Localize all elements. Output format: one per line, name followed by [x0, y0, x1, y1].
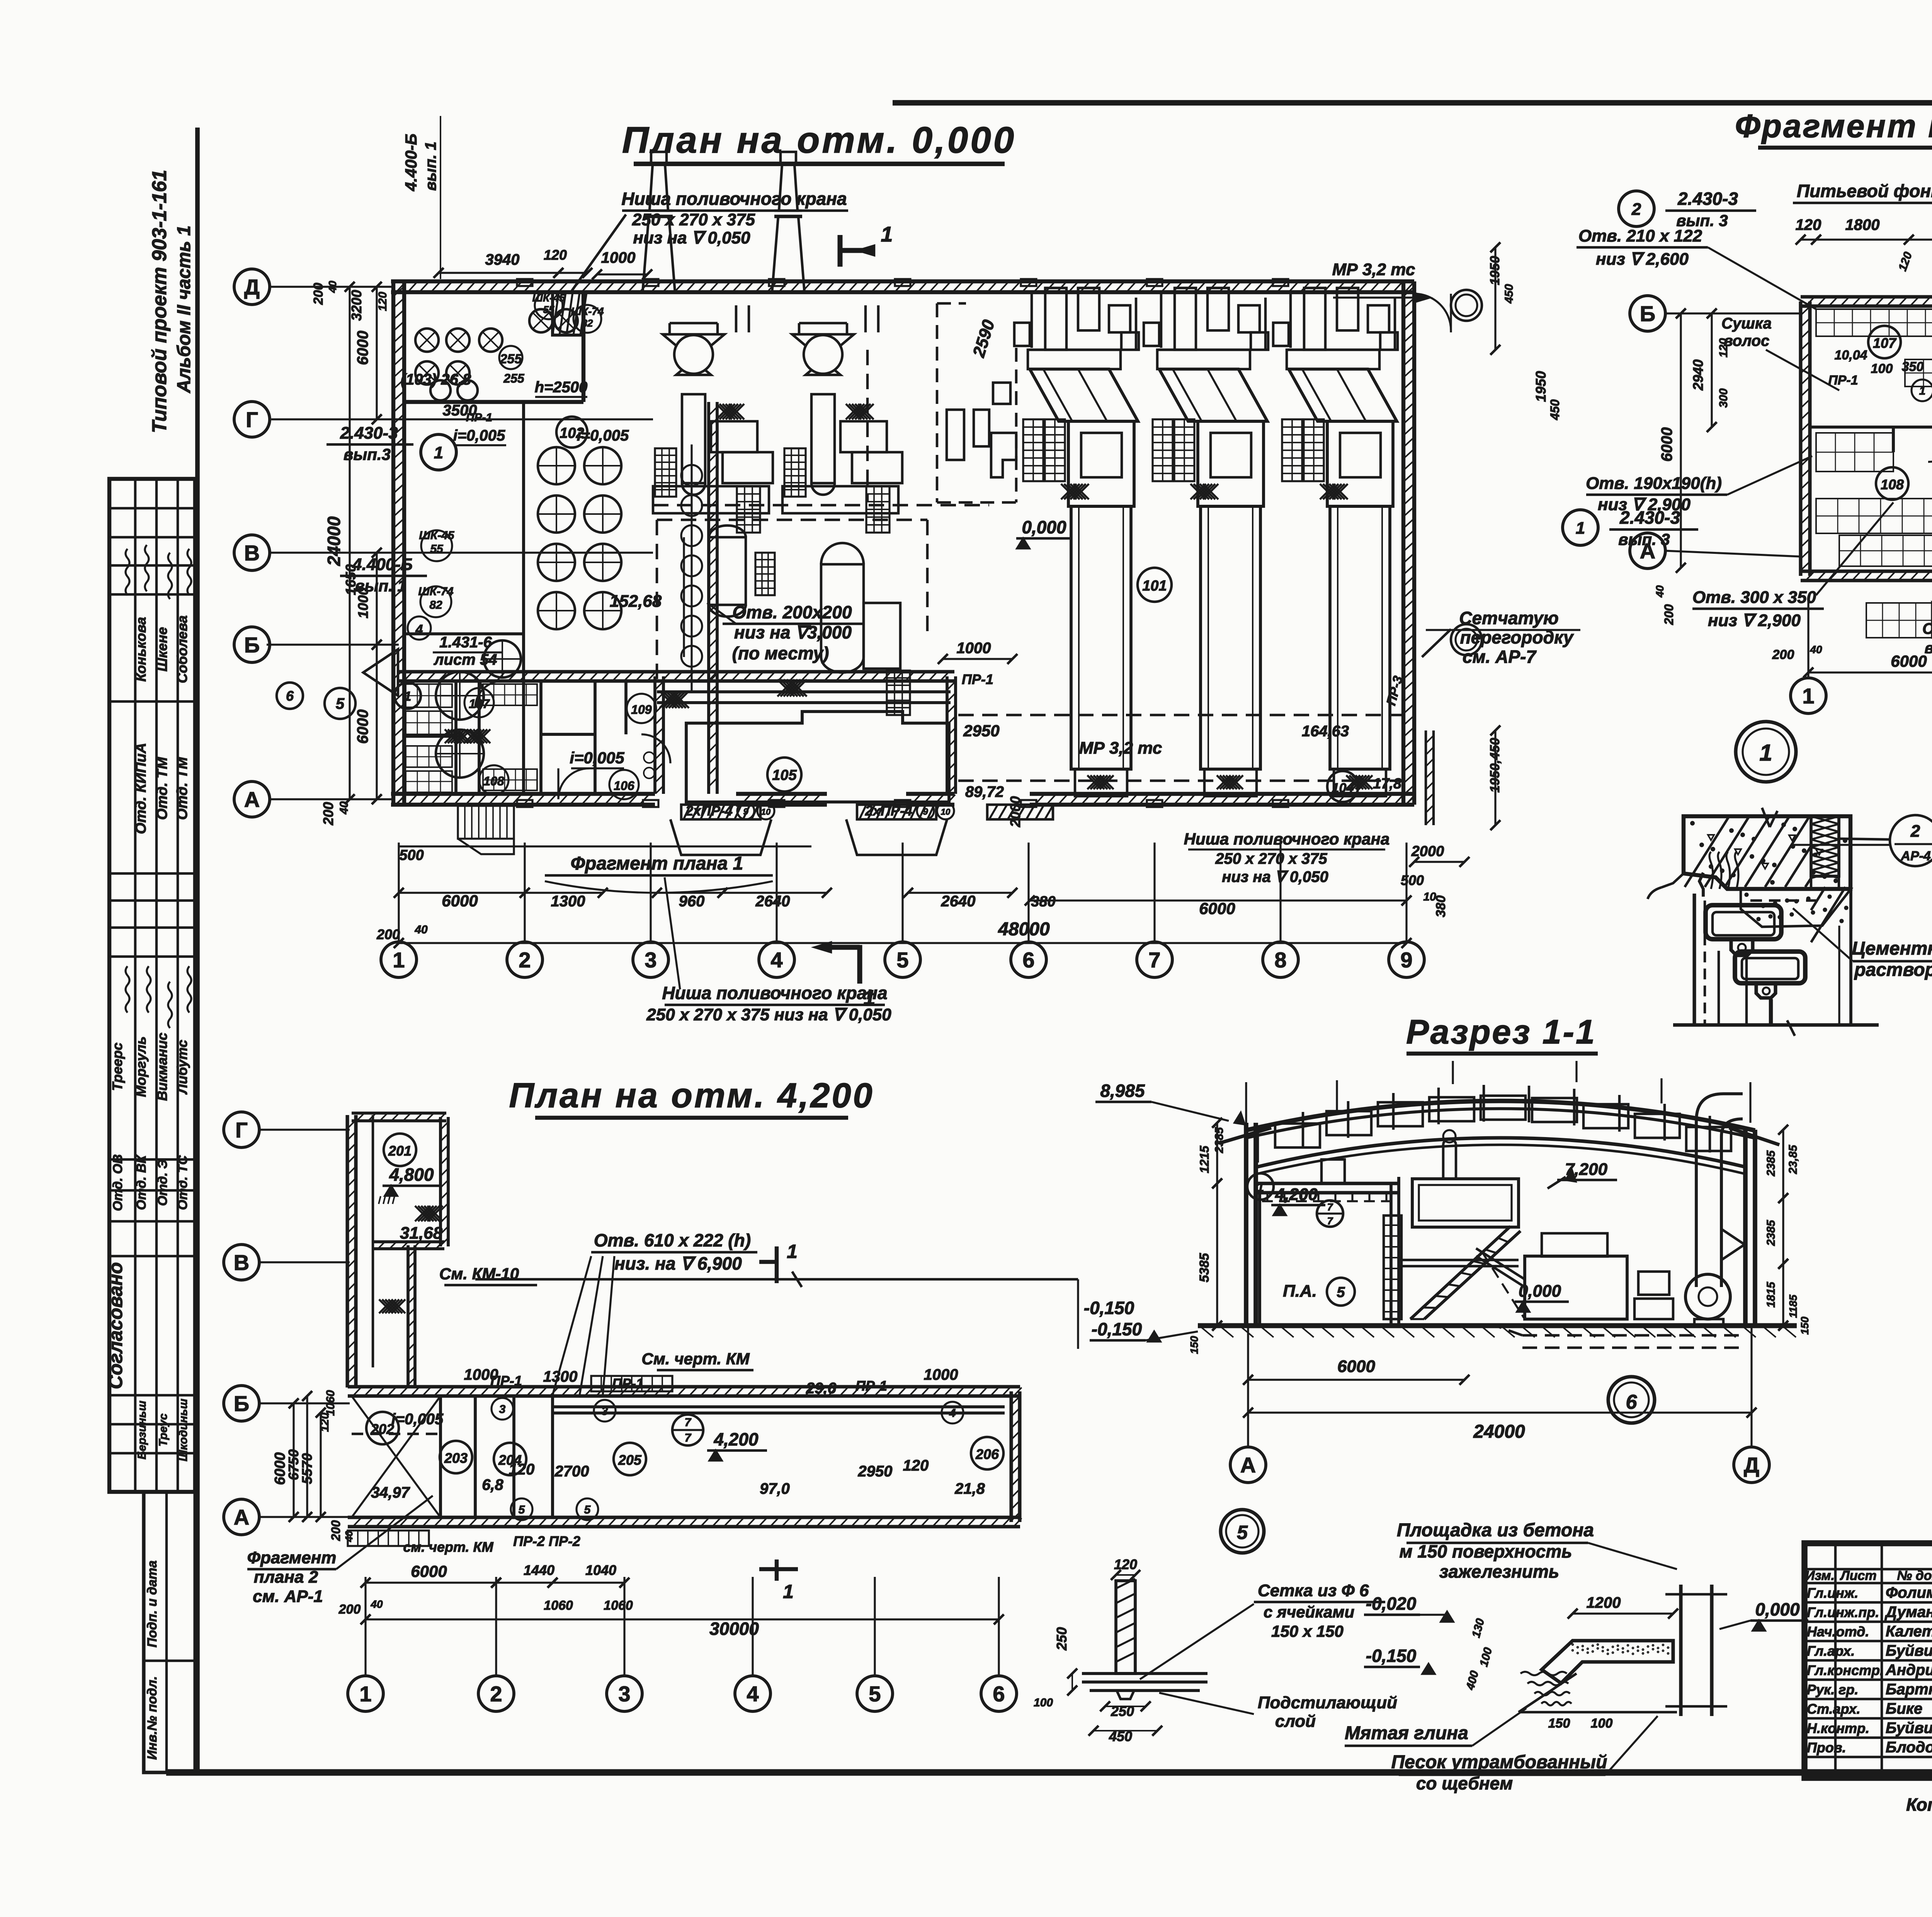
svg-text:лист 54: лист 54 [434, 651, 497, 668]
svg-text:6000: 6000 [354, 710, 371, 744]
svg-text:Блодоне: Блодоне [1886, 1739, 1932, 1756]
svg-text:МР 3,2 тс: МР 3,2 тс [1332, 260, 1415, 279]
svg-text:21,8: 21,8 [954, 1480, 985, 1497]
svg-text:(по месту): (по месту) [732, 643, 829, 663]
svg-text:5: 5 [1237, 1522, 1248, 1543]
svg-text:Сетка из Ф 6: Сетка из Ф 6 [1258, 1581, 1369, 1600]
svg-text:раствор: раствор [1854, 960, 1932, 980]
svg-text:6000: 6000 [442, 892, 478, 910]
svg-text:низ ∇ 2,600: низ ∇ 2,600 [1596, 250, 1689, 269]
svg-text:Б: Б [244, 633, 260, 657]
svg-text:8: 8 [1274, 948, 1286, 972]
svg-text:6,8: 6,8 [482, 1476, 503, 1493]
svg-text:А: А [244, 787, 260, 812]
svg-text:2хПР-4: 2хПР-4 [865, 803, 912, 819]
svg-text:1060: 1060 [604, 1598, 633, 1613]
svg-text:вып.3: вып.3 [344, 445, 391, 463]
svg-text:250 х 270 х 375 низ на ∇ 0,05: 250 х 270 х 375 низ на ∇ 0,050 [646, 1005, 891, 1024]
svg-text:см. черт. КМ: см. черт. КМ [403, 1539, 493, 1555]
main plan small labels [466, 291, 604, 424]
main plan boiler top pipes [1032, 294, 1395, 350]
svg-text:100: 100 [1034, 1696, 1053, 1709]
svg-text:10,04: 10,04 [1834, 348, 1867, 363]
svg-text:82: 82 [429, 599, 442, 611]
svg-text:89,72: 89,72 [965, 783, 1004, 800]
svg-text:2640: 2640 [755, 893, 790, 910]
main plan bottom niche label [646, 877, 891, 1024]
svg-text:Отд. ТС: Отд. ТС [175, 1155, 190, 1210]
svg-text:Отд. ОВ: Отд. ОВ [111, 1154, 125, 1211]
plan4200 axis circles [224, 1112, 1017, 1711]
svg-text:40: 40 [327, 281, 338, 293]
svg-text:Гл.инж.: Гл.инж. [1807, 1585, 1858, 1601]
border frame left [195, 128, 200, 1774]
svg-text:Д: Д [244, 275, 260, 299]
plan4200 room labels [366, 1411, 1003, 1475]
fragment plan door arcs [1928, 336, 1932, 576]
svg-text:-0,150: -0,150 [1084, 1298, 1134, 1318]
svg-text:55: 55 [430, 543, 444, 555]
svg-text:Гл.арх.: Гл.арх. [1807, 1643, 1855, 1659]
section exhauster duct [1685, 1094, 1745, 1326]
main plan entry ramps [458, 802, 1053, 855]
fragment plan position circles [1912, 295, 1932, 573]
svg-text:29,6: 29,6 [806, 1380, 837, 1397]
main plan right side details [1302, 294, 1469, 867]
section bottom dims [1243, 1357, 1757, 1442]
svg-text:1.431-6: 1.431-6 [439, 634, 492, 651]
below title block notes [1906, 1794, 1932, 1835]
fragment plan bottom labels [1772, 580, 1932, 714]
svg-text:105: 105 [772, 767, 797, 783]
svg-text:низ на ∇ 0,050: низ на ∇ 0,050 [1222, 868, 1328, 885]
svg-text:250: 250 [1054, 1627, 1070, 1651]
svg-text:ПР-1: ПР-1 [490, 1373, 522, 1389]
svg-text:Гл.констр.: Гл.констр. [1807, 1662, 1884, 1678]
svg-text:Согласовано: Согласовано [105, 1262, 126, 1389]
svg-text:Берзиньш: Берзиньш [136, 1401, 148, 1459]
plan4200 otv610 label [553, 1230, 757, 1395]
svg-text:№ докум.: № докум. [1897, 1568, 1932, 1583]
sidebar table frame [109, 479, 195, 1492]
main plan right outside labels [1451, 189, 1756, 830]
svg-text:В: В [234, 1250, 249, 1275]
svg-text:6000: 6000 [411, 1562, 447, 1580]
svg-text:5: 5 [896, 948, 908, 972]
main plan deaerator tanks [653, 305, 989, 715]
svg-text:109: 109 [631, 703, 652, 717]
svg-text:Сушка: Сушка [1922, 620, 1932, 637]
main plan top dims [402, 116, 652, 279]
border frame bottom [166, 1769, 1932, 1776]
plan4200 left dims [272, 1390, 355, 1542]
svg-text:6: 6 [1626, 1391, 1638, 1413]
svg-text:24000: 24000 [324, 516, 344, 566]
svg-text:2640: 2640 [941, 893, 976, 910]
svg-text:Андриевская: Андриевская [1885, 1662, 1932, 1679]
svg-text:5385: 5385 [1197, 1253, 1212, 1282]
main plan right niche label [1025, 830, 1424, 918]
svg-text:6: 6 [993, 1682, 1005, 1706]
fragment plan room circles [1736, 326, 1932, 782]
svg-text:5: 5 [519, 1503, 526, 1516]
svg-text:слой: слой [1275, 1712, 1316, 1731]
section economizer [1476, 1233, 1673, 1319]
svg-text:Либутс: Либутс [174, 1040, 190, 1095]
section ground [1198, 1326, 1797, 1337]
svg-text:1200: 1200 [1587, 1594, 1621, 1611]
svg-text:5: 5 [1337, 1284, 1345, 1301]
main plan grid circles [381, 843, 1424, 977]
svg-text:6: 6 [1022, 948, 1034, 972]
svg-text:150 х 150: 150 х 150 [1271, 1622, 1344, 1640]
svg-text:200: 200 [1772, 647, 1794, 662]
title plan 4.200 [509, 1076, 874, 1118]
svg-text:Альбом II часть 1: Альбом II часть 1 [174, 225, 194, 393]
main plan doors [475, 681, 670, 799]
svg-text:Ниша поливочного крана: Ниша поливочного крана [621, 189, 847, 209]
svg-text:40: 40 [1654, 585, 1666, 598]
svg-text:3: 3 [645, 948, 656, 972]
svg-text:План на отм. 4,200: План на отм. 4,200 [509, 1076, 874, 1115]
svg-text:-0,150: -0,150 [1366, 1646, 1417, 1666]
main plan room 103 tanks [401, 309, 578, 419]
svg-text:Подстилающий: Подстилающий [1258, 1693, 1397, 1712]
main plan rooms 106-109 [399, 672, 657, 799]
svg-text:40: 40 [338, 801, 350, 815]
svg-text:255: 255 [500, 352, 522, 366]
svg-text:вып. 1: вып. 1 [355, 577, 406, 595]
svg-text:500: 500 [399, 847, 423, 863]
main plan axis lines [267, 287, 653, 799]
wall detail 2AP-4 [1648, 808, 1932, 1036]
svg-text:7: 7 [1327, 1215, 1333, 1227]
svg-text:Ст.арх.: Ст.арх. [1807, 1701, 1861, 1717]
plan4200 bottom dims [338, 1562, 1004, 1639]
svg-text:200: 200 [338, 1602, 361, 1617]
svg-text:150: 150 [1188, 1336, 1200, 1354]
svg-text:См. черт. КМ: См. черт. КМ [641, 1350, 750, 1368]
svg-text:500: 500 [1401, 872, 1424, 888]
main plan KTP 105 [655, 672, 1023, 827]
svg-text:3940: 3940 [485, 251, 520, 268]
svg-text:Копировал Бролиша: Копировал Бролиша [1906, 1794, 1932, 1815]
detail 5 labels [1140, 1581, 1397, 1731]
svg-text:с ячейками: с ячейками [1264, 1603, 1354, 1621]
svg-text:120: 120 [903, 1457, 929, 1474]
svg-text:120: 120 [509, 1461, 535, 1478]
svg-text:Фрагмент плана 1: Фрагмент плана 1 [571, 853, 743, 874]
main plan bottom dims [376, 846, 1448, 948]
svg-text:7: 7 [1148, 948, 1160, 972]
svg-text:1: 1 [1257, 1180, 1264, 1195]
svg-text:1185: 1185 [1787, 1294, 1799, 1318]
plan4200 fragment2 label [247, 1496, 433, 1606]
svg-text:206: 206 [975, 1446, 999, 1462]
svg-text:4: 4 [770, 948, 782, 972]
border frame top [893, 100, 1932, 106]
svg-text:см. АР-1: см. АР-1 [253, 1587, 323, 1606]
svg-text:Барткевич: Барткевич [1886, 1681, 1932, 1698]
svg-text:h=2500: h=2500 [535, 379, 588, 396]
svg-text:4,200: 4,200 [713, 1429, 759, 1449]
section stairs [1384, 1216, 1520, 1319]
main plan axis letter circles [234, 269, 270, 817]
svg-text:Б: Б [1640, 301, 1655, 326]
svg-text:Отд. ВК: Отд. ВК [134, 1154, 149, 1210]
svg-text:2: 2 [490, 1682, 502, 1706]
svg-text:i=0,005: i=0,005 [391, 1411, 444, 1428]
svg-text:низ. на ∇ 6,900: низ. на ∇ 6,900 [614, 1253, 742, 1273]
plan4200 numbers [371, 1366, 985, 1520]
svg-text:вып. 1: вып. 1 [422, 141, 439, 191]
svg-text:1: 1 [434, 443, 443, 462]
svg-text:5: 5 [584, 1503, 591, 1516]
main plan room 102 filters [408, 417, 702, 778]
svg-text:2700: 2700 [554, 1463, 589, 1480]
svg-text:Ниша поливочного крана: Ниша поливочного крана [1184, 830, 1390, 848]
svg-text:9: 9 [1400, 948, 1412, 972]
svg-text:Ниша поливочного крана: Ниша поливочного крана [662, 983, 887, 1003]
svg-text:А: А [1240, 1453, 1256, 1477]
svg-text:4: 4 [949, 1407, 956, 1420]
svg-text:150: 150 [1799, 1316, 1811, 1335]
svg-text:Отд. КИПиА: Отд. КИПиА [133, 743, 149, 834]
svg-text:107: 107 [469, 697, 490, 711]
svg-text:Калетов: Калетов [1886, 1623, 1932, 1640]
svg-text:плана 2: плана 2 [254, 1568, 318, 1587]
svg-text:6000: 6000 [1891, 652, 1927, 670]
svg-text:i=0,005: i=0,005 [577, 427, 629, 444]
svg-text:2: 2 [519, 948, 531, 972]
svg-text:1: 1 [1576, 519, 1585, 538]
svg-text:97,0: 97,0 [760, 1480, 790, 1497]
svg-text:2: 2 [1910, 822, 1920, 841]
svg-text:104: 104 [1332, 781, 1354, 795]
svg-text:202: 202 [371, 1421, 394, 1437]
svg-text:Гл.инж.пр.: Гл.инж.пр. [1807, 1604, 1879, 1620]
title block frame and signatures [1804, 1543, 1932, 1778]
section roof and columns [1219, 1101, 1779, 1326]
svg-text:1: 1 [881, 222, 893, 246]
svg-text:34,97: 34,97 [371, 1484, 410, 1501]
main plan outer walls [391, 281, 1415, 806]
svg-text:3: 3 [499, 1403, 506, 1416]
svg-text:3: 3 [618, 1682, 630, 1706]
svg-text:108: 108 [483, 774, 504, 788]
svg-text:2385: 2385 [1765, 1150, 1777, 1176]
svg-text:40: 40 [1810, 644, 1822, 655]
svg-text:150: 150 [1548, 1716, 1570, 1731]
svg-text:1: 1 [404, 689, 412, 704]
svg-text:А: А [234, 1505, 249, 1529]
svg-text:ПР-1: ПР-1 [962, 671, 993, 687]
svg-text:Треус: Треус [157, 1413, 170, 1447]
svg-text:Конькова: Конькова [133, 617, 149, 681]
svg-text:120: 120 [1796, 216, 1821, 233]
svg-text:МР 3,2 тс: МР 3,2 тс [1079, 739, 1162, 758]
svg-text:низ ∇ 2,900: низ ∇ 2,900 [1708, 611, 1801, 630]
plan4200 section marks [759, 1241, 798, 1602]
svg-text:Отд. Э: Отд. Э [155, 1159, 170, 1206]
svg-text:255: 255 [503, 371, 525, 385]
svg-text:201: 201 [388, 1143, 412, 1159]
svg-text:Нач.отд.: Нач.отд. [1807, 1624, 1869, 1639]
svg-text:6000: 6000 [1658, 427, 1675, 462]
svg-text:Подп. и дата: Подп. и дата [145, 1560, 160, 1647]
svg-text:Отв. 200х200: Отв. 200х200 [732, 602, 852, 622]
svg-text:Разрез 1-1: Разрез 1-1 [1406, 1013, 1596, 1051]
section roof extension lines [1246, 1061, 1750, 1123]
svg-text:Б: Б [234, 1391, 249, 1416]
fragment plan top labels [1577, 147, 1932, 363]
svg-text:6000: 6000 [1337, 1357, 1375, 1376]
svg-text:7: 7 [685, 1416, 692, 1429]
svg-text:Г: Г [235, 1118, 248, 1142]
svg-text:1000: 1000 [601, 249, 636, 266]
svg-text:1: 1 [783, 1581, 794, 1602]
svg-text:1215: 1215 [1197, 1145, 1211, 1173]
section channel [1495, 1326, 1743, 1348]
section roof struts [1258, 1085, 1755, 1167]
svg-text:Сушка: Сушка [1721, 315, 1772, 332]
svg-text:ПР-1: ПР-1 [1828, 373, 1858, 388]
svg-text:3200: 3200 [349, 290, 364, 321]
svg-text:4: 4 [415, 622, 423, 637]
svg-text:24000: 24000 [1473, 1422, 1525, 1442]
svg-text:низ на ∇3,000: низ на ∇3,000 [734, 622, 852, 642]
svg-text:Буйвите: Буйвите [1886, 1720, 1932, 1737]
svg-text:низ ∇ 2,900: низ ∇ 2,900 [1598, 495, 1690, 514]
svg-text:Н.контр.: Н.контр. [1807, 1720, 1869, 1736]
svg-text:Площадка из бетона: Площадка из бетона [1397, 1520, 1594, 1541]
fragment plan lockers fixtures [1816, 309, 1932, 638]
svg-text:Шкодиньш: Шкодиньш [177, 1398, 190, 1461]
main plan partitions 102-103 [404, 294, 717, 794]
svg-text:Отв. 610 х 222 (h): Отв. 610 х 222 (h) [594, 1230, 751, 1250]
svg-text:5570: 5570 [299, 1453, 315, 1484]
svg-text:Песок утрамбованный: Песок утрамбованный [1391, 1752, 1607, 1772]
svg-text:101: 101 [1142, 578, 1167, 594]
svg-text:-0,150: -0,150 [1092, 1319, 1142, 1339]
svg-text:120: 120 [376, 292, 389, 311]
svg-text:1: 1 [1802, 684, 1814, 708]
main plan otv200 label [707, 602, 864, 663]
svg-text:7: 7 [1327, 1201, 1333, 1213]
svg-text:5: 5 [869, 1682, 881, 1706]
svg-text:5: 5 [336, 695, 345, 712]
svg-text:2хПР-4: 2хПР-4 [685, 803, 733, 819]
main plan left dims [311, 281, 389, 826]
svg-text:Д: Д [1744, 1453, 1759, 1477]
svg-text:Бике: Бике [1886, 1700, 1922, 1717]
svg-text:350: 350 [1902, 359, 1924, 374]
section side dims [1188, 1118, 1811, 1354]
svg-text:152,68: 152,68 [610, 592, 662, 611]
svg-text:7: 7 [685, 1432, 692, 1444]
svg-text:3: 3 [602, 1405, 608, 1418]
title plan 0.000 [622, 119, 1016, 164]
svg-text:40: 40 [370, 1598, 383, 1610]
detail 5 foundation [1034, 1510, 1264, 1744]
title section 1-1 [1406, 1013, 1598, 1054]
svg-text:1800: 1800 [1845, 216, 1880, 233]
svg-text:Типовой проект 903-1-161: Типовой проект 903-1-161 [148, 170, 171, 433]
svg-text:1950: 1950 [1533, 371, 1549, 402]
fragment plan left labels [1586, 315, 1932, 657]
svg-text:1: 1 [787, 1241, 798, 1262]
svg-text:8,985: 8,985 [1100, 1081, 1145, 1101]
svg-text:Мятая глина: Мятая глина [1345, 1723, 1468, 1743]
svg-text:4: 4 [747, 1682, 759, 1706]
svg-text:Викманис: Викманис [154, 1033, 170, 1101]
main plan GRU dashed zone [937, 303, 1016, 502]
svg-text:Отв. 210 х 122: Отв. 210 х 122 [1578, 226, 1702, 245]
svg-text:4,200: 4,200 [1275, 1185, 1318, 1204]
svg-text:450: 450 [1503, 284, 1515, 304]
svg-text:Фолимонов: Фолимонов [1886, 1584, 1932, 1601]
svg-text:1: 1 [393, 948, 405, 972]
svg-text:1: 1 [359, 1682, 371, 1706]
main plan section cut marks [815, 222, 893, 1010]
svg-text:30000: 30000 [709, 1619, 759, 1639]
fragment plan axis circles [1630, 296, 1932, 713]
svg-text:100: 100 [1591, 1716, 1613, 1731]
svg-text:2.430-3: 2.430-3 [1677, 189, 1738, 209]
svg-text:1: 1 [1919, 385, 1926, 397]
svg-text:Шкене: Шкене [154, 627, 170, 671]
svg-text:250 х 270 х 375: 250 х 270 х 375 [1215, 850, 1327, 867]
main plan niche label top [572, 189, 848, 291]
section boiler [1412, 1130, 1617, 1227]
svg-text:6000: 6000 [354, 331, 371, 365]
sidebar bottom strip [144, 1492, 195, 1772]
svg-text:200: 200 [329, 1520, 343, 1541]
svg-text:Сетчатую: Сетчатую [1459, 608, 1558, 628]
svg-text:250 х 270 х 375: 250 х 270 х 375 [632, 210, 755, 229]
svg-text:Отд. ТМ: Отд. ТМ [174, 756, 190, 820]
svg-text:волос: волос [1724, 332, 1770, 349]
svg-text:17,8: 17,8 [1373, 776, 1402, 792]
svg-text:со щебнем: со щебнем [1416, 1773, 1513, 1793]
fragment plan left dims [1654, 308, 1730, 625]
svg-text:2000: 2000 [1411, 843, 1444, 860]
svg-text:низ на ∇ 0,050: низ на ∇ 0,050 [633, 228, 750, 247]
svg-text:-0,020: -0,020 [1366, 1594, 1417, 1614]
svg-text:АР-4: АР-4 [1900, 849, 1931, 863]
section mezzanine [1247, 1159, 1399, 1326]
svg-text:4.400-Б: 4.400-Б [402, 134, 420, 192]
svg-text:1815: 1815 [1765, 1281, 1777, 1308]
svg-text:ПР-1: ПР-1 [855, 1378, 887, 1394]
svg-text:1060: 1060 [544, 1598, 573, 1613]
main plan pilasters [517, 279, 1288, 807]
svg-text:4.400-Б: 4.400-Б [352, 555, 413, 574]
svg-text:100: 100 [1871, 361, 1893, 376]
title fragment plan [1735, 108, 1932, 148]
svg-text:0,000: 0,000 [1022, 517, 1066, 537]
detail 6 concrete pad [1345, 1377, 1808, 1793]
fragment plan walls [1801, 297, 1932, 581]
svg-text:П.А.: П.А. [1283, 1282, 1317, 1301]
main plan network pumps [643, 152, 902, 533]
svg-text:2385: 2385 [1213, 1127, 1226, 1153]
plan4200 upper boundary [475, 1272, 1134, 1349]
svg-text:Моргуль: Моргуль [133, 1037, 149, 1097]
svg-text:(103) 26,8: (103) 26,8 [401, 371, 471, 388]
svg-text:108: 108 [1881, 477, 1904, 492]
mesh partition label [1422, 608, 1580, 667]
